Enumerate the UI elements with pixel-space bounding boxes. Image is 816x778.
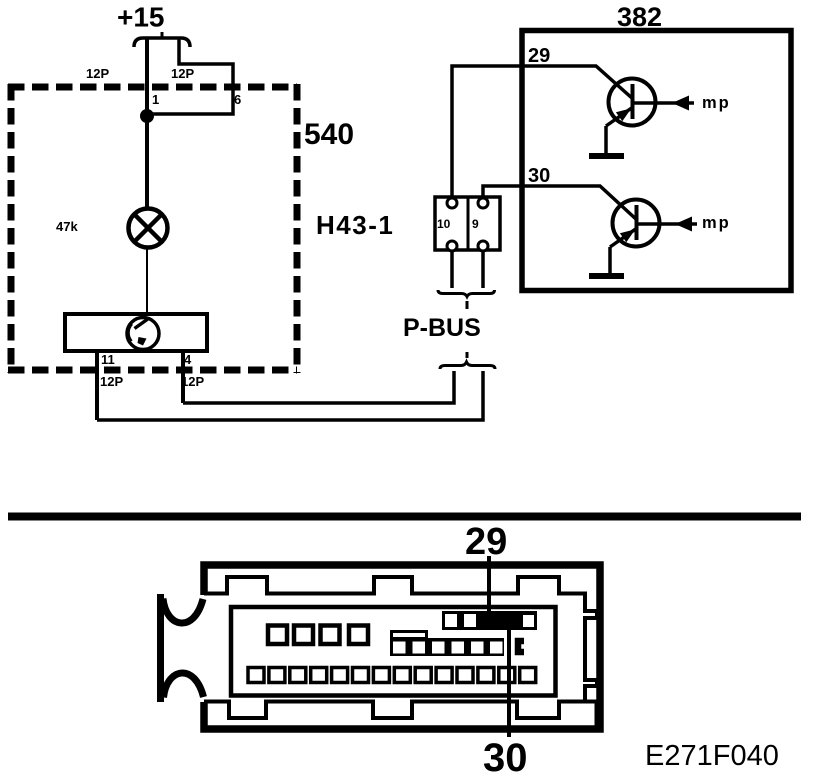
power rail bracket under +15	[134, 38, 190, 47]
tab above group C	[392, 632, 427, 639]
latch bottom arc	[164, 673, 204, 697]
svg-text:29: 29	[528, 45, 550, 67]
pin 4 wire	[181, 351, 185, 403]
pin group B with highlighted pins 29/30	[442, 611, 537, 630]
dashed tick	[466, 352, 469, 358]
svg-text:12P: 12P	[100, 374, 123, 389]
junction dot node 1	[140, 109, 154, 123]
pin area rect	[231, 607, 556, 696]
connector X 10/9 box	[435, 197, 500, 250]
connector face outer body	[204, 565, 600, 729]
svg-text:H43-1: H43-1	[316, 210, 394, 240]
leader line 30	[507, 628, 511, 737]
wire loop from +15 rail to pin 6 back to node	[150, 39, 233, 114]
separator line	[8, 513, 801, 521]
svg-text:P-BUS: P-BUS	[403, 314, 481, 342]
dashed unit box 540	[8, 84, 297, 373]
lamp symbol	[129, 209, 168, 248]
pin group C	[390, 638, 504, 656]
wire 30	[483, 186, 637, 220]
svg-text:4: 4	[184, 352, 192, 367]
ground Q2	[589, 273, 624, 279]
wire run pin 11 to P-BUS	[97, 371, 483, 420]
svg-text:11: 11	[101, 352, 115, 367]
svg-text:47k: 47k	[56, 219, 78, 234]
svg-text:12P: 12P	[86, 66, 109, 81]
ground Q1	[589, 153, 624, 159]
left latch bar	[157, 594, 164, 702]
P-BUS lower bracket	[440, 362, 495, 369]
svg-text:12P: 12P	[181, 374, 204, 389]
svg-text:12P: 12P	[171, 66, 194, 81]
dashed tick	[466, 301, 469, 309]
transistor Q2	[610, 200, 660, 248]
svg-text:540: 540	[304, 118, 354, 151]
Q2 emitter wire	[608, 247, 612, 273]
unit box 382	[522, 31, 791, 291]
partial pin bracket	[518, 641, 524, 652]
svg-text:29: 29	[465, 521, 507, 563]
svg-text:mp: mp	[702, 94, 731, 112]
transistor Q1	[606, 79, 656, 127]
svg-text:6: 6	[234, 92, 241, 107]
power rail center tick	[161, 32, 164, 38]
pin circles	[447, 198, 488, 251]
Q2 output arrow mp	[637, 222, 697, 226]
svg-text:9: 9	[472, 217, 479, 231]
castellated inner outline	[204, 577, 597, 718]
wire 29	[452, 66, 633, 198]
castellated spur to outer edge	[585, 702, 597, 728]
wire run pin 4 to P-BUS	[183, 371, 454, 403]
leader line 29	[487, 556, 491, 613]
svg-text:10: 10	[437, 217, 451, 231]
instrument box	[65, 314, 207, 351]
instrument motor symbol	[127, 318, 159, 350]
Q1 output arrow mp	[633, 101, 694, 105]
wire lamp to instrument	[146, 248, 148, 314]
svg-text:E271F040: E271F040	[645, 740, 779, 772]
pin group D bottom row	[248, 668, 536, 683]
svg-text:+15: +15	[117, 2, 165, 33]
svg-text:30: 30	[528, 165, 550, 187]
svg-text:1: 1	[152, 92, 159, 107]
pin group A	[268, 626, 368, 645]
svg-text:mp: mp	[702, 214, 731, 232]
latch top arc	[163, 599, 203, 623]
P-BUS upper bracket	[438, 290, 495, 297]
Q1 emitter wire	[604, 126, 608, 153]
svg-text:382: 382	[617, 2, 662, 32]
wire from +15 rail to pin 1 and lamp	[145, 38, 149, 210]
wires below connector	[450, 250, 454, 288]
svg-text:30: 30	[483, 736, 528, 778]
pin 11 wire	[95, 351, 99, 420]
